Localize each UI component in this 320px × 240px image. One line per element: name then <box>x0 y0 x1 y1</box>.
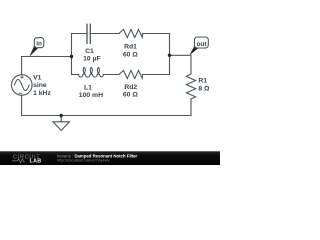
junction node output <box>168 54 171 57</box>
wire V1 bottom vertical <box>21 95 23 115</box>
svg-text:C1: C1 <box>85 48 94 55</box>
flag IN box <box>34 38 44 48</box>
ground triangle <box>53 122 69 131</box>
logo wire zigzag <box>12 159 25 163</box>
junction node input <box>70 55 73 58</box>
resistor Rd1 <box>119 29 143 37</box>
svg-text:sine: sine <box>33 82 47 89</box>
svg-text:Rd1: Rd1 <box>124 44 137 51</box>
V1 minus sign <box>19 92 22 94</box>
wire L1 to Rd2 <box>103 74 119 76</box>
resistor Rd2 <box>119 70 143 78</box>
flag OUT pointer tail <box>189 45 198 56</box>
svg-text:R1: R1 <box>198 78 207 85</box>
flag IN pointer tail <box>29 45 38 56</box>
svg-text:in: in <box>36 41 42 48</box>
svg-text:60 Ω: 60 Ω <box>123 51 138 58</box>
inductor L1 <box>79 68 104 78</box>
svg-text:8 Ω: 8 Ω <box>198 85 210 92</box>
wire output tap <box>170 54 192 56</box>
svg-text:out: out <box>196 41 207 48</box>
flag OUT box <box>195 37 209 48</box>
wire tank left edge vertical <box>71 34 73 75</box>
svg-text:60 Ω: 60 Ω <box>123 91 138 98</box>
wire Rd1 to right edge <box>143 33 170 35</box>
wire bottom return rail <box>22 115 191 117</box>
V1 plus sign <box>19 76 24 94</box>
wire input horizontal to tank left edge <box>22 56 72 58</box>
wire bottom rail to L1 <box>72 74 79 76</box>
svg-text:LAB: LAB <box>30 159 42 165</box>
svg-text:1 kHz: 1 kHz <box>33 90 51 97</box>
wire R1 bottom <box>190 99 192 116</box>
wire C1 to Rd1 <box>91 33 119 35</box>
voltage source V1 circle <box>11 75 32 96</box>
junction node ground tap <box>60 114 63 117</box>
wire input vertical from V1 top <box>21 57 23 75</box>
wire top rail to C1 <box>72 33 87 35</box>
wire down to R1 <box>190 55 192 74</box>
capacitor C1 plates <box>87 24 90 43</box>
svg-text:100 mH: 100 mH <box>79 92 103 99</box>
wire Rd2 to right edge <box>143 74 170 76</box>
svg-text:http://circuitlab.com/c/7dq4wv: http://circuitlab.com/c/7dq4wv <box>57 158 109 163</box>
svg-text:L1: L1 <box>84 85 92 92</box>
svg-text:V1: V1 <box>33 75 42 82</box>
svg-text:Rd2: Rd2 <box>124 84 137 91</box>
svg-text:10 µF: 10 µF <box>83 55 101 62</box>
resistor R1 vertical <box>186 74 195 99</box>
wire tank right edge vertical <box>169 34 171 75</box>
ground stem <box>60 116 62 122</box>
V1 sine waveform <box>14 79 29 90</box>
